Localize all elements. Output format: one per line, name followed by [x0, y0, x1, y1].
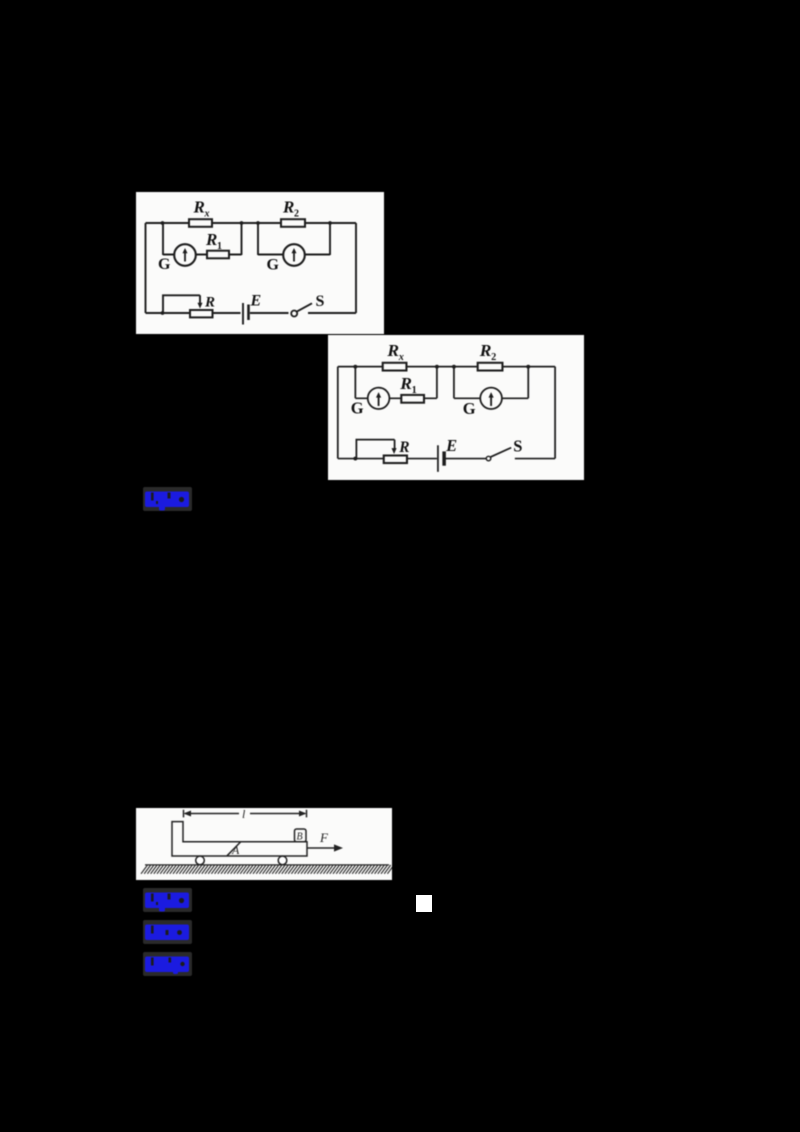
svg-text:E: E [445, 436, 457, 455]
svg-text:R: R [479, 340, 492, 360]
svg-text:2: 2 [491, 352, 496, 363]
svg-text:G: G [463, 399, 476, 418]
svg-text:R: R [205, 230, 217, 249]
svg-text:1: 1 [412, 385, 417, 396]
svg-text:R: R [399, 373, 412, 393]
svg-text:R: R [193, 198, 205, 217]
svg-text:G: G [351, 399, 364, 418]
svg-text:B: B [297, 832, 303, 843]
svg-text:R: R [282, 198, 294, 217]
svg-text:R: R [386, 340, 399, 360]
svg-text:2: 2 [294, 209, 299, 220]
svg-text:x: x [204, 209, 210, 220]
svg-text:l: l [242, 808, 246, 821]
svg-text:S: S [316, 293, 325, 310]
svg-text:S: S [513, 436, 522, 455]
svg-text:E: E [250, 293, 262, 310]
svg-text:F: F [319, 830, 329, 845]
svg-text:R: R [398, 439, 409, 456]
svg-text:1: 1 [217, 241, 222, 252]
svg-text:G: G [267, 257, 280, 274]
svg-text:x: x [398, 352, 404, 363]
svg-text:R: R [204, 295, 215, 311]
svg-text:A: A [231, 843, 240, 857]
svg-text:G: G [158, 256, 171, 273]
